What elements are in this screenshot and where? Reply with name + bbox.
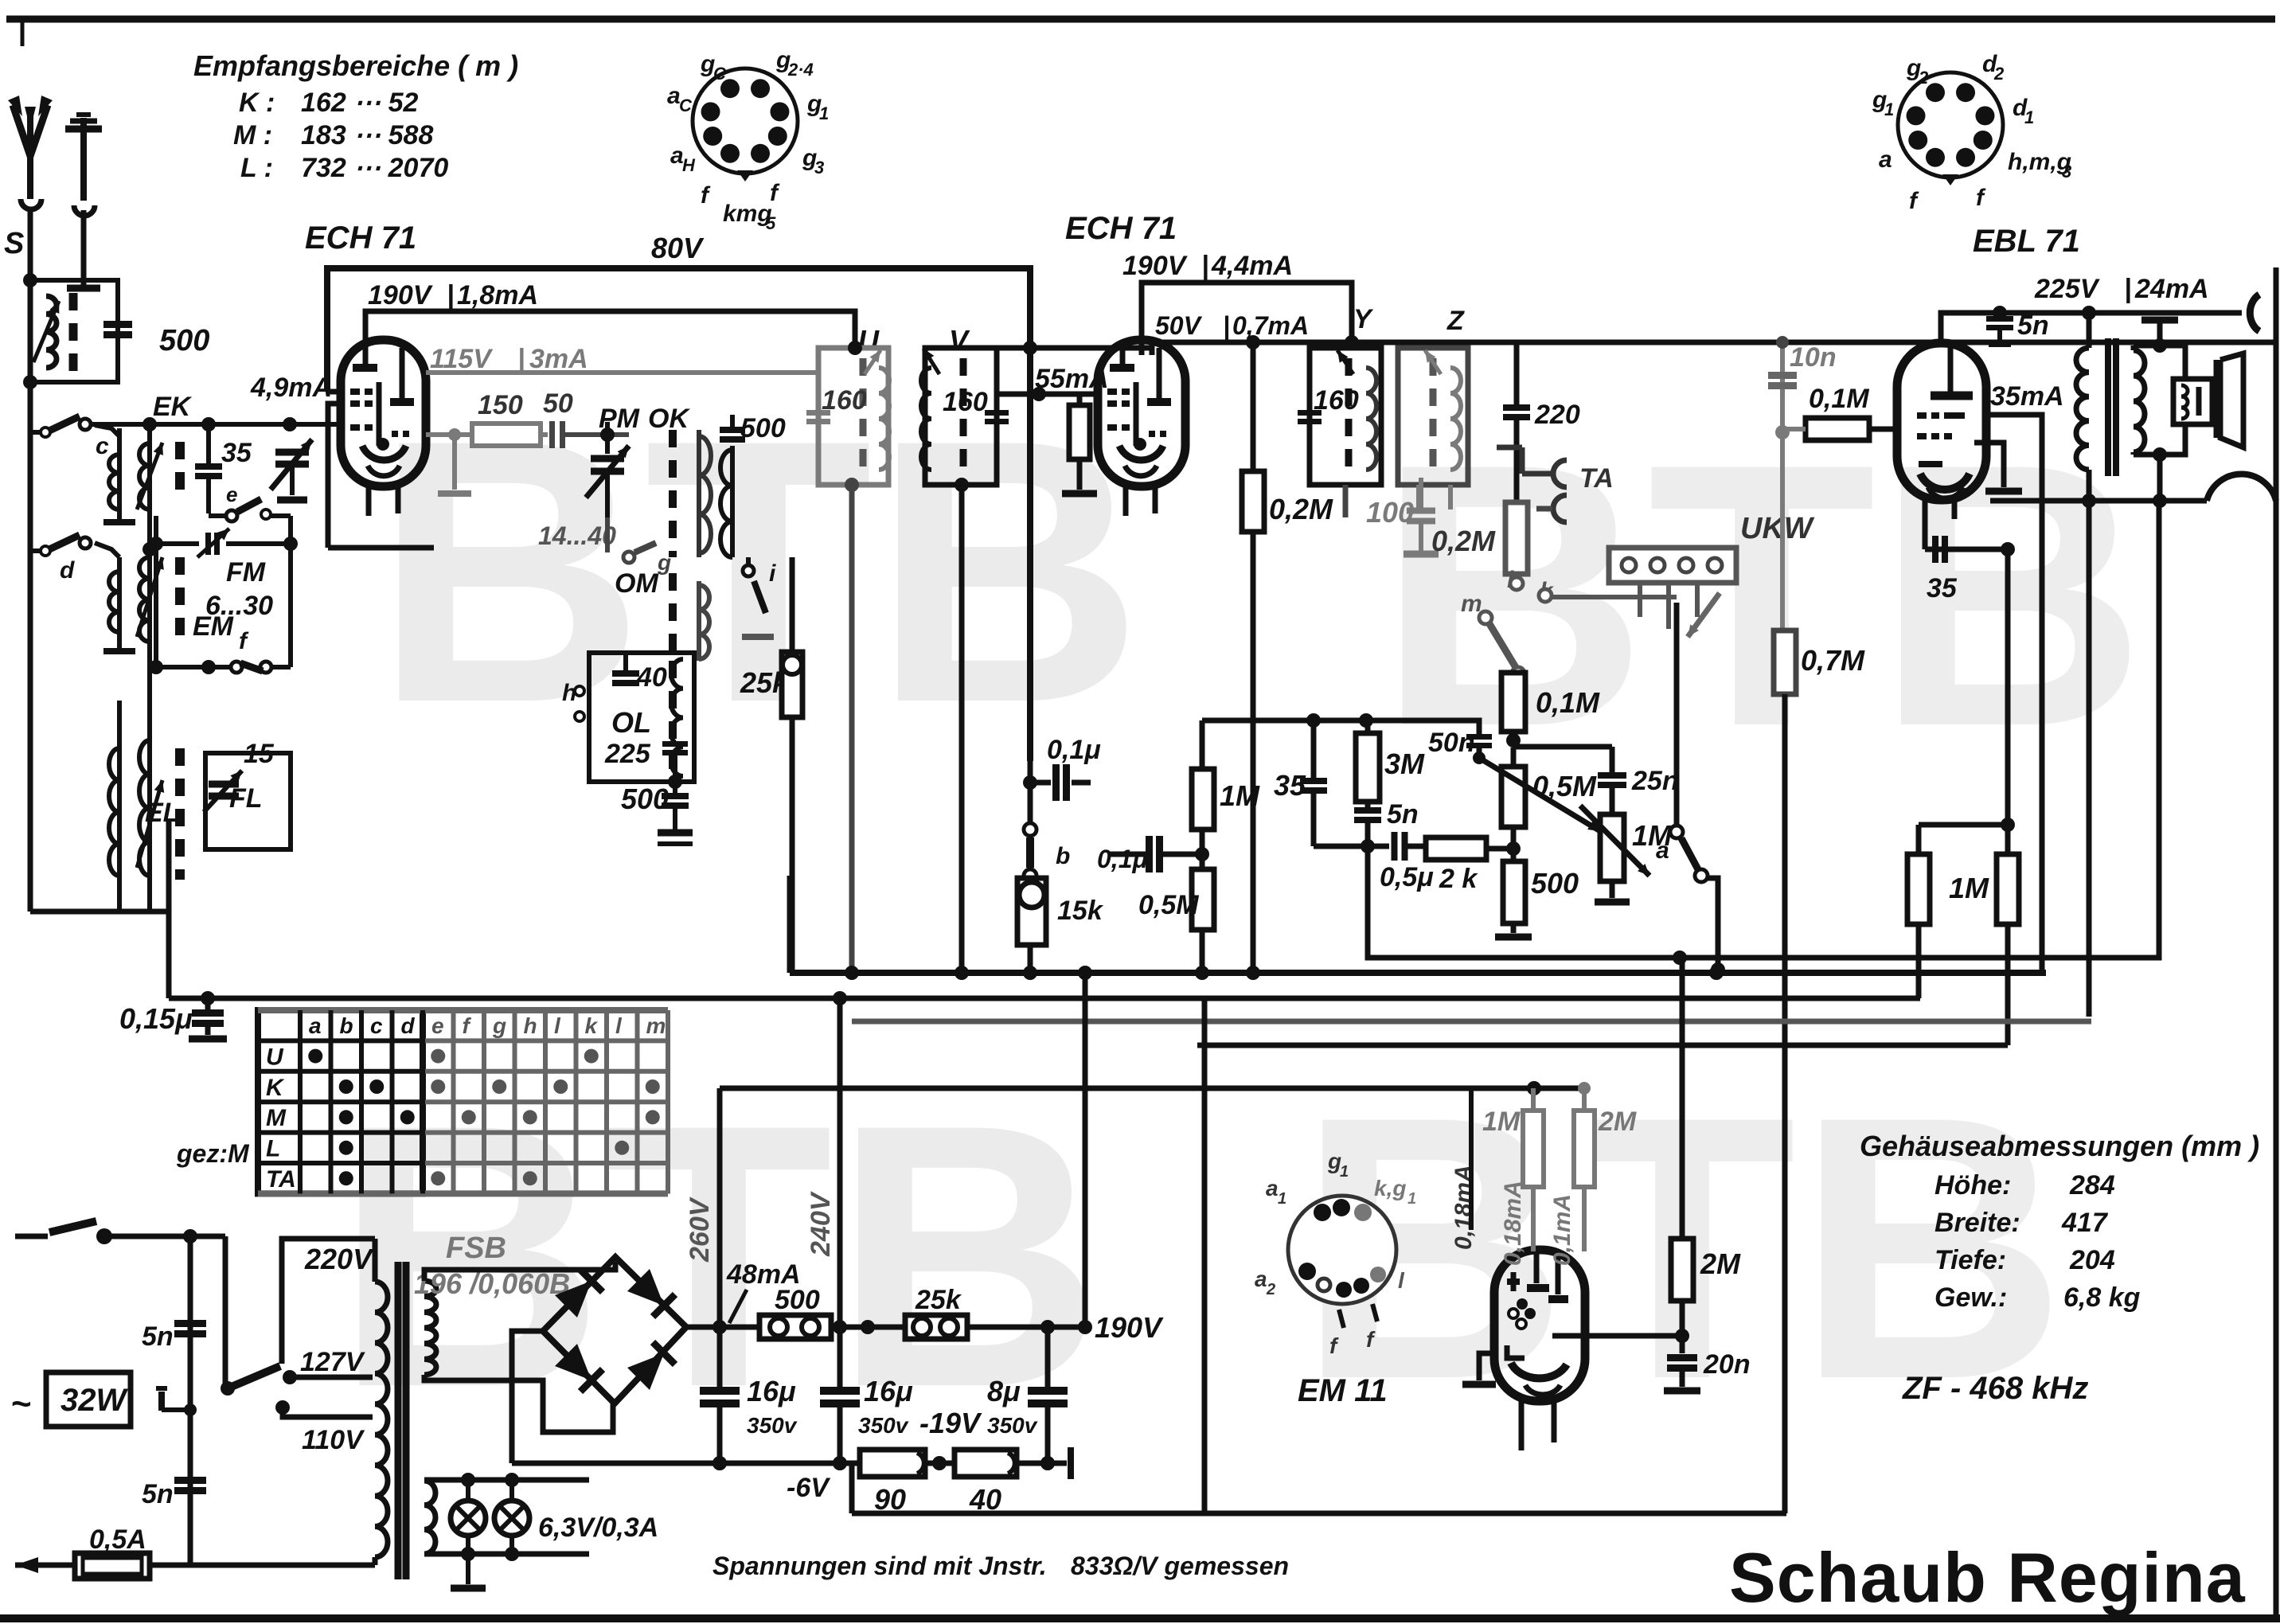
box OL	[589, 653, 694, 782]
wire 1M stems	[1916, 924, 1922, 998]
coil EK ant	[117, 428, 122, 516]
svg-text:d: d	[401, 1013, 416, 1038]
svg-text:500: 500	[159, 324, 209, 357]
wire y629	[1990, 498, 2207, 504]
svg-text:150: 150	[478, 390, 523, 420]
svg-text:417: 417	[2061, 1208, 2109, 1238]
svg-text:e: e	[431, 1013, 444, 1038]
svg-text:260V: 260V	[685, 1196, 715, 1263]
svg-text:c: c	[370, 1013, 383, 1038]
svg-text:15k: 15k	[1057, 896, 1104, 926]
right border	[2274, 267, 2279, 1618]
coil OL	[671, 659, 683, 776]
svg-text:1: 1	[1278, 1190, 1286, 1208]
wire af top	[1202, 718, 1477, 724]
svg-text:l: l	[554, 1013, 561, 1038]
wire V1 bottom	[328, 545, 434, 551]
svg-text:|: |	[447, 280, 455, 310]
svg-text:110V: 110V	[302, 1425, 365, 1455]
box FM	[154, 516, 158, 667]
svg-text:500: 500	[740, 413, 786, 443]
svg-text:25k: 25k	[915, 1285, 962, 1315]
svg-text:-19V: -19V	[919, 1407, 982, 1439]
svg-text:90: 90	[874, 1483, 906, 1516]
selector 220V	[225, 1236, 282, 1237]
svg-text:H: H	[682, 155, 696, 175]
wire 260V	[717, 1088, 723, 1391]
svg-text:732 ⋯ 2070: 732 ⋯ 2070	[301, 153, 448, 183]
svg-text:-6V: -6V	[787, 1473, 831, 1503]
cap 16u (2)	[820, 1387, 860, 1395]
svg-text:2M: 2M	[1598, 1107, 1637, 1137]
rail -6V	[512, 1461, 860, 1466]
svg-text:183 ⋯ 588: 183 ⋯ 588	[301, 120, 433, 150]
svg-text:3: 3	[814, 158, 824, 178]
tube V4 envelope	[1494, 1250, 1585, 1401]
tube V3 legs	[1923, 498, 1928, 549]
core EK	[175, 442, 185, 502]
svg-text:l: l	[615, 1013, 623, 1038]
svg-text:220: 220	[1534, 400, 1580, 430]
svg-text:ZF - 468 kHz: ZF - 468 kHz	[1902, 1371, 2088, 1406]
resistor 1M right	[1997, 854, 2019, 924]
svg-text:4,4mA: 4,4mA	[1211, 251, 1293, 281]
UKW pins	[1638, 583, 1642, 617]
IF box Z	[1398, 348, 1468, 485]
svg-text:3M: 3M	[1384, 748, 1425, 780]
bridge negative out	[512, 1331, 543, 1463]
wire 240V	[837, 998, 843, 1391]
svg-text:1,8mA: 1,8mA	[457, 280, 538, 310]
tube V2 internals	[1110, 364, 1134, 372]
svg-text:M :: M :	[233, 120, 272, 150]
svg-text:U: U	[266, 1044, 284, 1070]
svg-text:V: V	[949, 324, 970, 357]
svg-text:40: 40	[636, 662, 667, 693]
svg-text:Y: Y	[1353, 304, 1374, 334]
svg-text:0,1μ: 0,1μ	[1097, 845, 1148, 873]
bus E	[1197, 1043, 2008, 1048]
wire 50-PM	[563, 432, 629, 437]
trimmer PM	[591, 455, 624, 463]
resistor 15k	[1017, 878, 1046, 945]
cap 20n	[1667, 1354, 1697, 1361]
gray res 1M em	[1523, 1111, 1544, 1187]
svg-text:Empfangsbereiche ( m ): Empfangsbereiche ( m )	[193, 49, 518, 82]
svg-text:6,3V/0,3A: 6,3V/0,3A	[538, 1513, 658, 1543]
svg-text:0,5M: 0,5M	[1138, 890, 1199, 920]
switch c	[80, 419, 91, 430]
tube V4 ground	[1479, 1353, 1494, 1380]
gray wire 115V	[426, 370, 818, 375]
svg-text:Gew.:: Gew.:	[1934, 1282, 2007, 1313]
svg-text:Tiefe:: Tiefe:	[1934, 1245, 2006, 1275]
svg-text:kmg: kmg	[723, 201, 772, 227]
lamps	[424, 1478, 589, 1483]
tube V2 legs	[1123, 485, 1129, 516]
cap 220	[1503, 404, 1530, 411]
cap 500 bottom	[673, 782, 677, 793]
svg-text:3mA: 3mA	[529, 344, 588, 374]
coil EM ant	[117, 557, 122, 637]
svg-text:162 ⋯ 52: 162 ⋯ 52	[301, 88, 419, 118]
svg-text:a: a	[1266, 1176, 1279, 1200]
wire V3 anode	[1986, 415, 2042, 970]
bus C	[169, 996, 1920, 1001]
wire EK top	[95, 422, 334, 427]
svg-text:225: 225	[604, 739, 651, 769]
svg-text:0,2M: 0,2M	[1269, 493, 1333, 525]
svg-text:TA: TA	[266, 1166, 296, 1193]
socket ECH71	[693, 68, 798, 174]
svg-text:240V: 240V	[806, 1190, 836, 1257]
wire m to 0,1M	[1514, 673, 1520, 677]
box 220V	[285, 1236, 380, 1274]
svg-text:M: M	[266, 1105, 287, 1131]
svg-text:c: c	[96, 433, 109, 459]
svg-text:Schaub Regina: Schaub Regina	[1729, 1538, 2246, 1617]
cap 5n top	[1986, 316, 2013, 322]
cap 500 osc	[720, 427, 745, 433]
pot 1M af	[1600, 814, 1624, 881]
svg-text:K: K	[266, 1075, 285, 1101]
svg-text:S: S	[4, 227, 24, 260]
coil OM	[697, 581, 701, 661]
wire 150-50	[541, 432, 548, 437]
svg-text:220V: 220V	[304, 1243, 374, 1275]
svg-text:Z: Z	[1446, 306, 1465, 336]
svg-text:16μ: 16μ	[864, 1375, 913, 1407]
OT core	[2105, 338, 2111, 476]
switch e	[226, 510, 237, 521]
svg-text:204: 204	[2069, 1245, 2115, 1275]
coil EM tuned	[147, 549, 152, 667]
svg-text:|: |	[1201, 251, 1209, 281]
svg-text:|: |	[517, 344, 525, 374]
hook right end	[2242, 312, 2247, 314]
cap 0,5u	[1392, 832, 1398, 861]
svg-text:OL: OL	[611, 706, 651, 739]
svg-text:k,g: k,g	[1374, 1176, 1406, 1200]
svg-text:l: l	[1398, 1268, 1405, 1293]
resistor 40	[955, 1450, 1017, 1477]
resistor 0,7M	[1774, 630, 1796, 694]
svg-text:1M: 1M	[1482, 1107, 1521, 1137]
svg-text:8μ: 8μ	[987, 1375, 1021, 1407]
mains left vert	[188, 1236, 193, 1565]
wire V1 grid	[91, 422, 341, 427]
tube V3 internals	[1931, 392, 1973, 400]
svg-text:10n: 10n	[1790, 342, 1837, 373]
wire antenna down	[28, 209, 33, 912]
svg-text:127V: 127V	[300, 1347, 366, 1377]
bridge AC wires	[424, 1262, 615, 1281]
svg-text:i: i	[769, 560, 776, 587]
svg-text:0,2M: 0,2M	[1431, 525, 1496, 557]
svg-text:2: 2	[1266, 1281, 1275, 1298]
wire lamp right	[572, 1480, 574, 1556]
antenna coil box	[30, 280, 118, 382]
mains switch	[15, 1234, 48, 1239]
switch g	[623, 552, 634, 563]
svg-text:0,1μ: 0,1μ	[1047, 735, 1101, 765]
svg-text:Höhe:: Höhe:	[1934, 1170, 2011, 1200]
earth terminal	[80, 118, 87, 201]
svg-text:16μ: 16μ	[747, 1375, 796, 1407]
svg-text:1: 1	[2024, 107, 2034, 127]
cap 5n af	[1354, 807, 1381, 814]
svg-text:b: b	[1056, 843, 1070, 869]
svg-text:0,5A: 0,5A	[89, 1524, 146, 1555]
svg-text:b: b	[340, 1013, 353, 1038]
svg-text:m: m	[646, 1013, 666, 1038]
core EL	[175, 748, 185, 880]
wire af mid	[1314, 844, 1389, 849]
svg-text:Gehäuseabmessungen (mm ): Gehäuseabmessungen (mm )	[1860, 1130, 2259, 1162]
core EM	[175, 557, 185, 643]
svg-text:|: |	[1223, 311, 1230, 340]
wire V1 screen	[327, 389, 342, 395]
resistor 0,2M (1)	[1242, 471, 1264, 532]
resistor 0,2M (2)	[1505, 502, 1528, 574]
svg-text:FSB: FSB	[446, 1232, 506, 1265]
capacitor 500 (antenna)	[103, 321, 132, 328]
antenna	[13, 105, 48, 156]
svg-text:2: 2	[1918, 68, 1929, 88]
svg-text:~: ~	[11, 1384, 32, 1423]
gnd -6V rail	[1068, 1447, 1074, 1479]
wire 25n	[1513, 744, 1612, 750]
wire V3 cathode	[1974, 443, 2004, 487]
lamp wires top	[424, 1480, 425, 1481]
tube V4 anode wire	[1585, 1333, 1682, 1339]
voltage selector	[282, 1239, 375, 1364]
bus B main	[790, 970, 2046, 976]
svg-text:5n: 5n	[2017, 310, 2049, 341]
resistor 0,5M mid	[1192, 869, 1214, 930]
cap 35 EK	[195, 463, 222, 470]
svg-text:190V: 190V	[1095, 1311, 1164, 1344]
wire em grid	[1469, 1088, 1474, 1230]
svg-text:g: g	[492, 1013, 506, 1038]
UKW box	[1609, 548, 1736, 583]
svg-text:UKW: UKW	[1740, 512, 1815, 545]
svg-text:Breite:: Breite:	[1934, 1208, 2020, 1238]
svg-text:C: C	[679, 96, 693, 115]
svg-text:K :: K :	[239, 88, 275, 118]
tube V1 internals	[353, 364, 377, 372]
svg-text:500: 500	[621, 783, 669, 815]
svg-text:TA: TA	[1579, 463, 1614, 494]
svg-text:5n: 5n	[1387, 799, 1419, 830]
gray stem gnd	[452, 435, 457, 490]
svg-text:225V: 225V	[2034, 274, 2101, 304]
svg-text:190V: 190V	[368, 280, 434, 310]
svg-text:500: 500	[1531, 867, 1579, 900]
svg-text:L: L	[266, 1136, 280, 1162]
svg-text:14...40: 14...40	[538, 521, 616, 550]
svg-text:350v: 350v	[858, 1413, 909, 1438]
vert OT primary down	[2087, 501, 2092, 1017]
svg-text:32W: 32W	[61, 1383, 128, 1418]
resistor 90	[860, 1450, 925, 1477]
box 32W	[46, 1372, 131, 1427]
svg-text:ECH 71: ECH 71	[1065, 211, 1177, 246]
svg-text:24mA: 24mA	[2134, 274, 2209, 304]
svg-text:a: a	[1656, 837, 1669, 864]
socket EBL71	[1898, 72, 2003, 178]
coil OK2	[730, 446, 735, 557]
svg-text:5: 5	[766, 213, 776, 233]
FM trimmer	[205, 533, 211, 555]
svg-text:h: h	[524, 1013, 537, 1038]
core OK	[669, 430, 677, 557]
IF Y stem	[1343, 485, 1349, 517]
svg-text:50: 50	[543, 388, 573, 419]
gray vert 10n	[1780, 342, 1785, 632]
wire V1 osc grid	[328, 404, 342, 548]
svg-text:160: 160	[822, 385, 867, 416]
svg-text:L :: L :	[240, 153, 273, 183]
svg-text:35: 35	[1927, 573, 1958, 603]
svg-text:2M: 2M	[1700, 1247, 1741, 1280]
svg-text:35: 35	[1274, 769, 1306, 802]
svg-text:OM: OM	[615, 568, 658, 599]
tube V4 legs	[1519, 1400, 1525, 1450]
svg-text:50V: 50V	[1155, 311, 1203, 340]
svg-text:35mA: 35mA	[1990, 381, 2064, 412]
wire 19V link	[939, 1461, 940, 1482]
OT secondary	[2134, 350, 2145, 452]
svg-text:350v: 350v	[987, 1413, 1038, 1438]
svg-text:40: 40	[969, 1483, 1001, 1516]
coil OK	[697, 430, 701, 557]
svg-text:EM 11: EM 11	[1298, 1373, 1388, 1408]
wire EL bottom	[117, 880, 122, 912]
IF box V	[925, 348, 997, 485]
cap 40	[612, 670, 639, 677]
svg-text:FM: FM	[226, 557, 266, 588]
tube V1 legs	[366, 485, 372, 516]
svg-text:OK: OK	[648, 404, 690, 434]
svg-text:1: 1	[1884, 100, 1894, 119]
svg-text:1M: 1M	[1949, 872, 1989, 904]
switch b	[1024, 823, 1037, 836]
svg-text:EM: EM	[193, 611, 234, 642]
svg-text:0,7mA: 0,7mA	[1232, 311, 1309, 340]
svg-text:ECH 71: ECH 71	[305, 221, 416, 256]
svg-text:4,9mA: 4,9mA	[250, 373, 332, 403]
resistor 2M out	[1671, 1239, 1693, 1301]
svg-text:6,8 kg: 6,8 kg	[2063, 1282, 2141, 1313]
UKW long pin	[1674, 603, 1680, 826]
coil EL ant	[117, 701, 122, 880]
svg-text:48mA: 48mA	[726, 1259, 801, 1290]
speaker wire	[2153, 447, 2167, 462]
svg-text:2·4: 2·4	[787, 60, 814, 80]
pot 0,5M	[1501, 767, 1525, 827]
coil EK tuned	[147, 424, 152, 549]
af box	[1368, 501, 2159, 958]
box FL	[205, 753, 291, 849]
svg-text:284: 284	[2069, 1170, 2115, 1200]
resistor 0,1M af	[1501, 673, 1525, 732]
svg-text:0,5μ: 0,5μ	[1380, 862, 1434, 892]
resistor 500 af	[1503, 861, 1525, 923]
DC output wire	[686, 1325, 759, 1330]
speaker	[2173, 379, 2212, 424]
bottom border	[0, 1614, 2280, 1622]
svg-text:1: 1	[1340, 1163, 1349, 1181]
svg-text:833Ω/V gemessen: 833Ω/V gemessen	[1071, 1552, 1289, 1580]
EM11 box	[1202, 998, 1208, 1513]
tube V2 cathode R	[1077, 394, 1083, 405]
switch i	[743, 565, 754, 576]
top border	[6, 16, 2275, 23]
resistor 1M left	[1907, 854, 1930, 924]
hook bottom right	[2207, 474, 2276, 501]
wire selector top	[29, 431, 31, 433]
svg-text:0,1M: 0,1M	[1536, 686, 1600, 719]
switch f	[231, 662, 242, 673]
svg-text:25n: 25n	[1631, 766, 1679, 796]
rectifier bridge	[543, 1257, 686, 1403]
node OL bottom	[668, 775, 682, 789]
svg-text:a: a	[309, 1013, 322, 1038]
svg-text:a: a	[1255, 1267, 1267, 1291]
resistor 1M mid	[1192, 769, 1214, 830]
svg-text:80V: 80V	[651, 232, 705, 264]
cap 25n	[1598, 772, 1626, 779]
svg-text:EL: EL	[145, 798, 179, 828]
chassis sym	[158, 1392, 165, 1411]
coil EL tuned	[147, 683, 152, 880]
svg-text:0,15μ: 0,15μ	[119, 1002, 193, 1035]
cap 16u (1)	[700, 1387, 740, 1395]
tuning cap 1	[275, 449, 309, 456]
bus D	[852, 1019, 2091, 1025]
bus F	[720, 1086, 1584, 1091]
svg-text:gez:M: gez:M	[176, 1139, 250, 1168]
resistor 2k	[1426, 837, 1486, 860]
svg-text:1M: 1M	[1220, 779, 1260, 812]
IF box Y	[1310, 348, 1381, 485]
svg-text:350v: 350v	[747, 1413, 798, 1438]
svg-text:2 k: 2 k	[1439, 864, 1478, 894]
cap 35 ebl	[1932, 536, 1938, 563]
resistor 1M right r	[1997, 854, 2019, 924]
svg-text:115V: 115V	[430, 344, 494, 374]
IF box V wires	[925, 345, 1152, 351]
svg-text:EK: EK	[153, 392, 193, 422]
switch d	[80, 537, 91, 548]
svg-text:1: 1	[819, 103, 829, 123]
svg-text:20n: 20n	[1703, 1349, 1751, 1380]
transformer HT sec	[424, 1281, 436, 1375]
svg-text:FL: FL	[229, 783, 263, 814]
svg-text:BTB: BTB	[1377, 386, 2146, 804]
svg-text:0,7M: 0,7M	[1801, 644, 1865, 677]
EM11 socket	[1288, 1196, 1396, 1304]
transformer primary	[375, 1282, 388, 1557]
trimmer 15 FL	[209, 781, 239, 788]
svg-text:Spannungen sind mit Jnstr.: Spannungen sind mit Jnstr.	[712, 1552, 1047, 1580]
svg-text:C: C	[713, 64, 727, 84]
svg-text:U: U	[858, 324, 880, 357]
svg-text:0,1mA: 0,1mA	[1549, 1194, 1575, 1266]
IF Z stems	[1416, 485, 1421, 509]
OT top terminal	[2141, 317, 2178, 324]
